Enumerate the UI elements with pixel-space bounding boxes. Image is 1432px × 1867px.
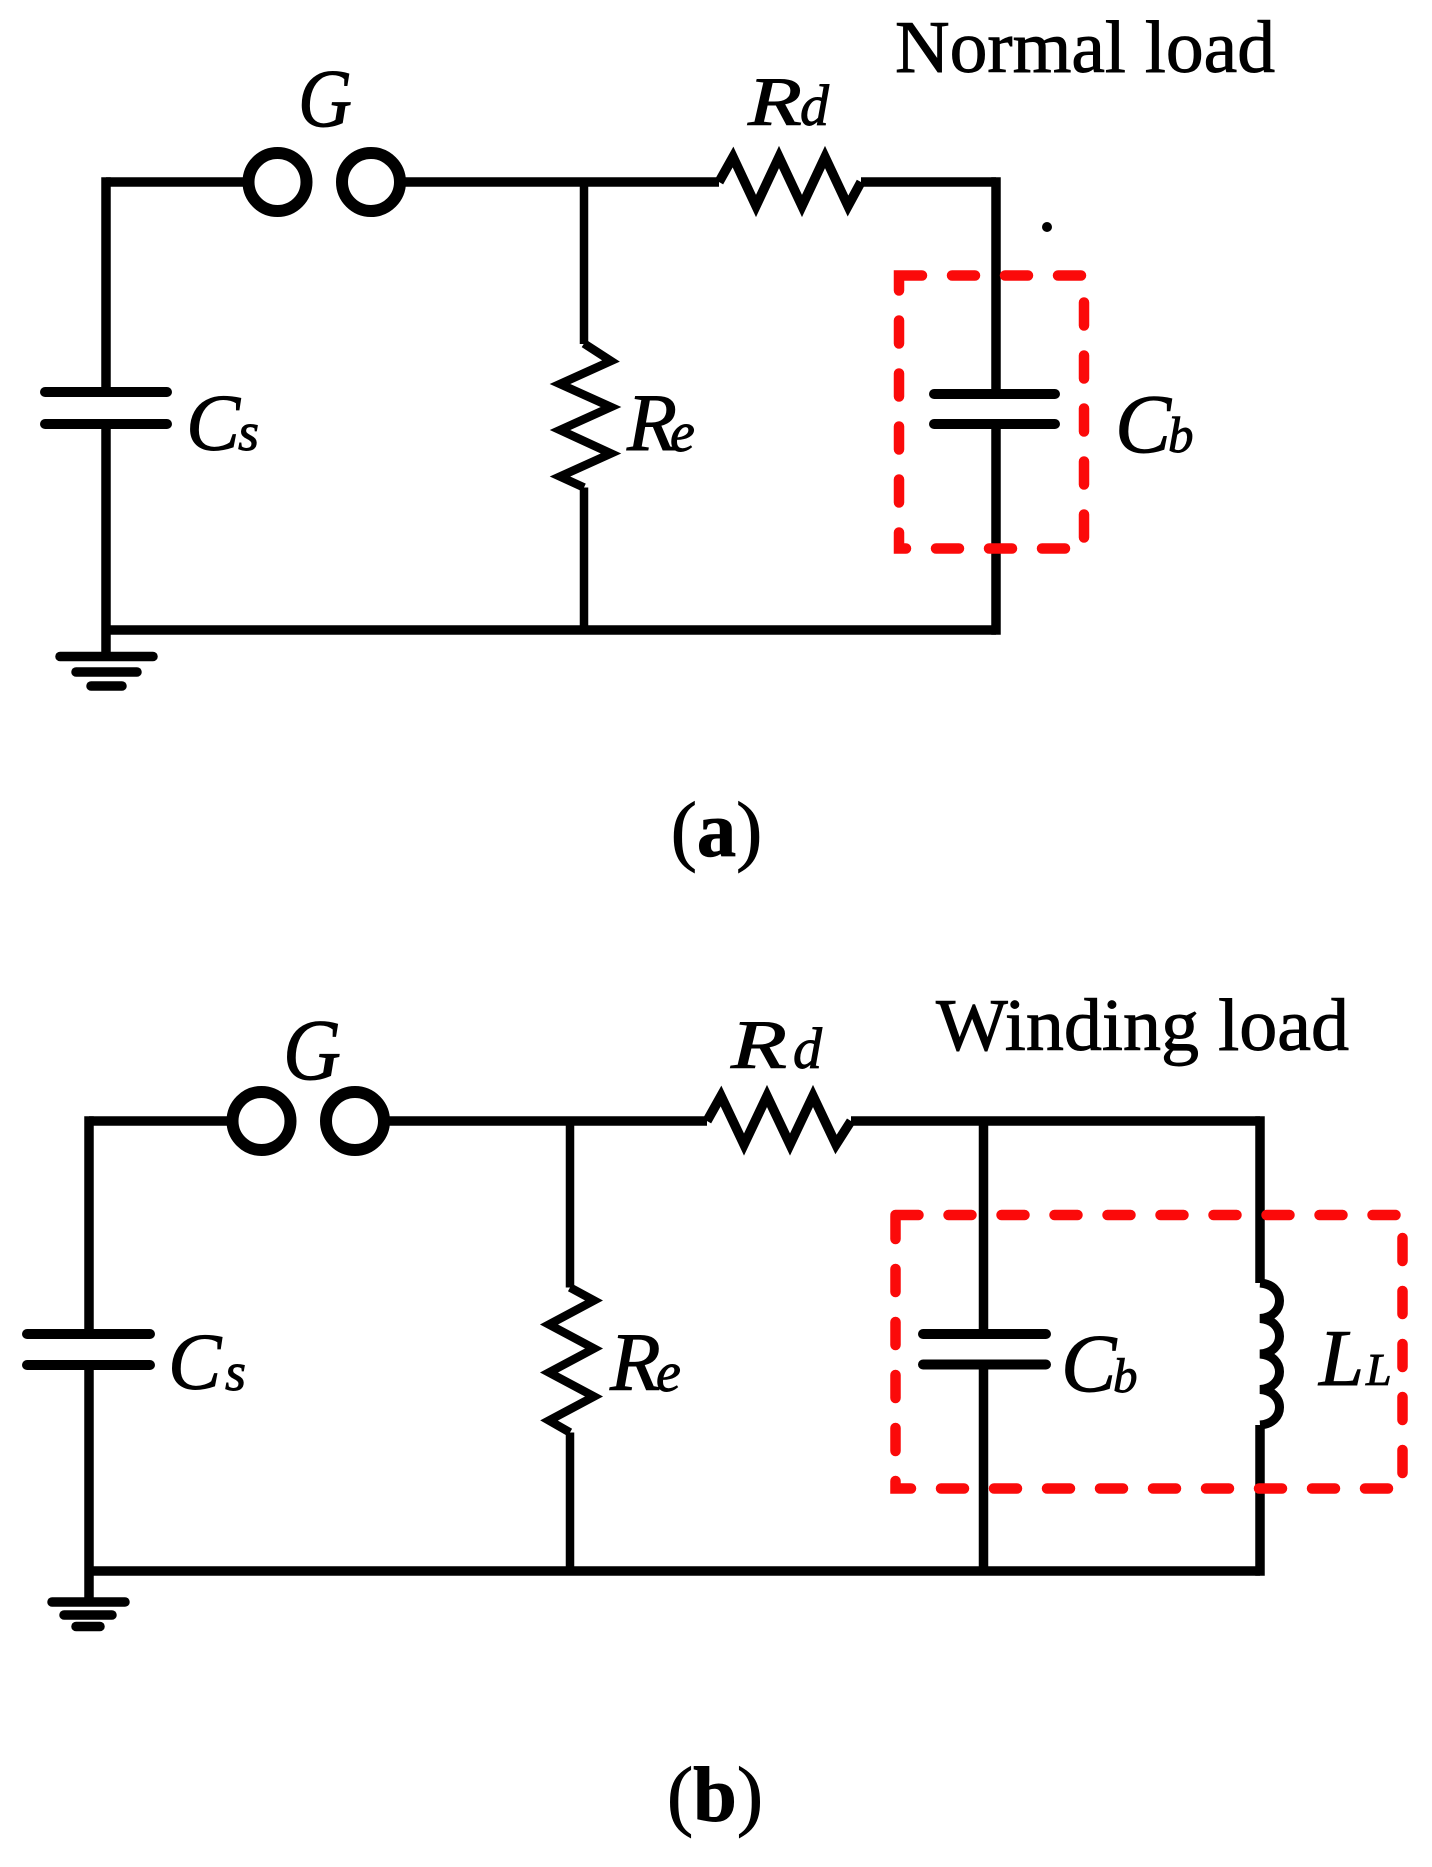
capacitor Cs top plate (b)	[27, 1329, 150, 1339]
wire Cb branch lower (b)	[979, 1369, 989, 1571]
svg-text:e: e	[670, 402, 695, 464]
ground symbol bar 2 (a)	[76, 667, 137, 677]
svg-text:s: s	[225, 1342, 246, 1402]
svg-text:R: R	[730, 1007, 787, 1083]
capacitor Cs bottom plate (a)	[45, 419, 167, 429]
wire Re branch lower (a)	[580, 488, 589, 631]
wire right rail lower (a)	[991, 428, 1001, 635]
svg-text:b: b	[1113, 1348, 1138, 1403]
wire Re branch upper (b)	[566, 1121, 575, 1288]
ground symbol bar 3 (a)	[91, 681, 122, 691]
ground symbol bar 1 (b)	[52, 1597, 125, 1607]
svg-text:d: d	[800, 73, 830, 138]
wire top rail right segment (a)	[861, 177, 996, 187]
svg-text:b: b	[1168, 408, 1194, 464]
resistor Re zigzag (b)	[549, 1288, 594, 1433]
wire top rail left segment (a)	[106, 177, 243, 187]
svg-text:C: C	[1061, 1317, 1118, 1409]
wire bottom rail (b)	[89, 1566, 1260, 1576]
wire top rail left segment (b)	[89, 1116, 228, 1126]
wire left rail upper (a)	[101, 177, 111, 390]
wire right rail upper to inductor (b)	[1255, 1116, 1265, 1283]
ground symbol bar 2 (b)	[64, 1610, 112, 1620]
spark gap G left electrode (b)	[233, 1092, 291, 1150]
svg-text:C: C	[168, 1319, 223, 1407]
capacitor Cb top plate (b)	[923, 1329, 1046, 1339]
svg-text:s: s	[238, 402, 259, 462]
dashed red box around Cb (a)	[899, 276, 1084, 549]
ground symbol bar 3 (b)	[76, 1622, 100, 1632]
inductor LL coils (b)	[1260, 1283, 1280, 1425]
dashed red box around Cb and LL (b)	[896, 1215, 1403, 1489]
svg-text:R: R	[747, 64, 802, 140]
svg-text:Winding load: Winding load	[936, 985, 1349, 1067]
ground symbol bar 1 (a)	[60, 652, 153, 662]
wire right rail lower from inductor (b)	[1255, 1425, 1265, 1576]
wire top rail right segment (b)	[851, 1116, 1260, 1126]
svg-text:Normal load: Normal load	[895, 7, 1275, 89]
svg-text:R: R	[609, 1316, 661, 1408]
wire left rail lower to ground (b)	[84, 1369, 94, 1598]
capacitor Cs bottom plate (b)	[27, 1360, 150, 1370]
stray dot node (a)	[1042, 222, 1052, 232]
svg-text:(a): (a)	[671, 786, 763, 873]
capacitor Cb bottom plate (b)	[923, 1360, 1046, 1370]
wire left rail upper (b)	[84, 1116, 94, 1330]
wire right rail upper (a)	[991, 177, 1001, 390]
resistor Re zigzag (a)	[560, 344, 611, 488]
capacitor Cb bottom plate (a)	[934, 419, 1055, 429]
svg-text:e: e	[656, 1342, 681, 1404]
spark gap G right electrode (b)	[326, 1092, 384, 1150]
wire Re branch upper (a)	[580, 182, 589, 344]
resistor Rd zigzag (a)	[719, 157, 861, 206]
wire left rail lower to ground (a)	[101, 428, 111, 656]
svg-text:L: L	[1365, 1344, 1392, 1395]
svg-text:C: C	[1115, 378, 1172, 471]
capacitor Cb top plate (a)	[934, 389, 1055, 399]
spark gap G left electrode (a)	[249, 153, 307, 211]
wire bottom rail (a)	[106, 625, 996, 635]
svg-text:d: d	[793, 1016, 823, 1081]
resistor Rd zigzag (b)	[707, 1096, 851, 1145]
wire Re branch lower (b)	[566, 1433, 575, 1572]
svg-text:(b): (b)	[667, 1751, 763, 1838]
wire top rail middle segment (b)	[389, 1116, 707, 1126]
svg-text:G: G	[283, 1001, 341, 1098]
svg-text:L: L	[1318, 1313, 1364, 1403]
spark gap G right electrode (a)	[342, 153, 400, 211]
svg-text:G: G	[298, 53, 352, 145]
wire top rail middle segment (a)	[405, 177, 719, 187]
wire Cb branch upper (b)	[979, 1121, 989, 1330]
capacitor Cs top plate (a)	[45, 387, 167, 397]
svg-text:C: C	[186, 378, 241, 468]
